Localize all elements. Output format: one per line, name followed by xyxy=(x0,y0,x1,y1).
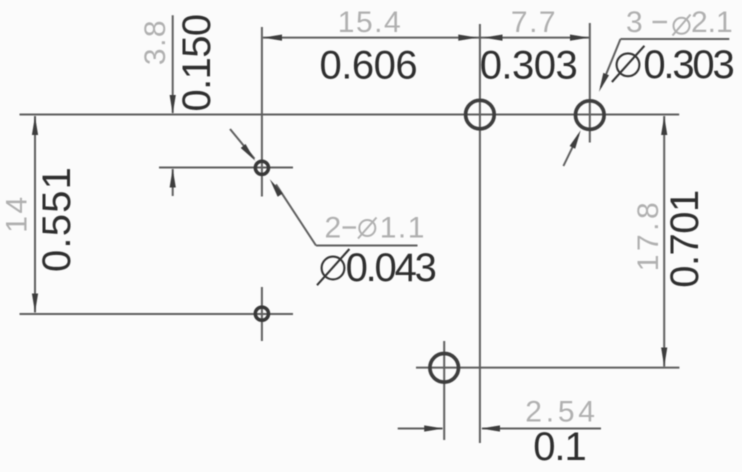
label 3-d2.1 diameter slash xyxy=(673,15,691,36)
wire horizontal centerline through small hole S1 xyxy=(159,167,293,169)
wire top horizontal centerline xyxy=(20,114,680,116)
arrow 0.150 lower (up) xyxy=(170,169,176,188)
svg-text:0.551: 0.551 xyxy=(35,166,79,272)
label d0.303 diameter circle xyxy=(617,53,640,76)
svg-text:0.303: 0.303 xyxy=(643,43,733,87)
hole H1 top left big circle xyxy=(466,100,495,129)
label 2-d1.1 diameter circle xyxy=(359,220,375,236)
svg-text:17.8: 17.8 xyxy=(632,199,665,271)
dimension line bottom 2.54 left segment xyxy=(398,428,443,430)
leader 2-d1.1 upper diagonal xyxy=(230,129,255,159)
hole H2 top right big circle xyxy=(576,101,605,130)
arrow leader 3-d2.1 lower tip xyxy=(570,129,584,149)
arrow 17.8 top (up) xyxy=(661,116,667,135)
arrow left-dim bottom (down) xyxy=(32,294,38,313)
dimension line 3.8/0.150 lower segment xyxy=(172,169,174,196)
arrow 7.7 right xyxy=(570,35,589,41)
svg-text:0.701: 0.701 xyxy=(663,190,707,288)
small hole S2 xyxy=(255,307,268,320)
svg-text:0.606: 0.606 xyxy=(319,44,417,88)
wire bottom horizontal centerline xyxy=(416,367,679,369)
arrow 17.8 bottom (down) xyxy=(661,348,667,367)
dimension line 3.8/0.150 upper segment xyxy=(172,15,174,113)
label d0.303 diameter slash xyxy=(612,46,645,82)
arrow leader 2-d1.1 lower tip xyxy=(267,177,283,196)
arrow 0.150 upper (down) xyxy=(170,95,176,114)
leader 3-d2.1 lower diagonal xyxy=(563,135,578,166)
label d0.043 diameter circle xyxy=(322,257,345,280)
wire vertical centerline through hole H1 xyxy=(479,24,481,443)
svg-text:2: 2 xyxy=(325,212,343,245)
arrow left-dim top (up) xyxy=(32,116,38,135)
label 2-d1.1 dash xyxy=(343,226,357,228)
svg-text:15.4: 15.4 xyxy=(338,6,402,39)
wire vertical centerline through small hole S1 xyxy=(261,27,263,197)
arrow 2.54 right (left-pointing) xyxy=(481,425,500,431)
arrow 7.7 left xyxy=(484,35,503,41)
arrow 15.4 right xyxy=(458,35,477,41)
label 3-d2.1 diameter circle xyxy=(674,18,690,34)
leader 2-d1.1 lower diagonal xyxy=(276,184,316,245)
label d0.043 diameter slash xyxy=(317,249,349,285)
svg-text:1.1: 1.1 xyxy=(380,212,426,245)
svg-text:2.54: 2.54 xyxy=(525,396,599,429)
dimension line left 14/0.551 xyxy=(34,116,36,313)
leader 2-d1.1 shoulder underline xyxy=(316,245,418,247)
arrow 2.54 left (right-pointing) xyxy=(424,425,443,431)
arrow leader 3-d2.1 upper tip xyxy=(596,73,609,93)
small hole S1 xyxy=(255,161,268,174)
wire vertical centerline through hole H3 xyxy=(443,341,445,440)
svg-text:0.1: 0.1 xyxy=(533,425,586,469)
svg-text:0.043: 0.043 xyxy=(346,246,436,290)
label 3-d2.1 dash xyxy=(653,21,668,23)
leader 3-d2.1 shoulder underline xyxy=(621,38,730,40)
label 2-d1.1 diameter slash xyxy=(358,218,377,239)
arrow leader 2-d1.1 upper tip xyxy=(241,144,258,163)
svg-text:3: 3 xyxy=(626,6,644,39)
arrow 15.4 left xyxy=(263,35,282,41)
leader 3-d2.1 upper diagonal xyxy=(601,39,621,87)
svg-text:0.150: 0.150 xyxy=(175,14,219,111)
wire vertical centerline through small hole S2 xyxy=(261,287,263,341)
wire vertical centerline through hole H2 xyxy=(589,23,591,143)
hole H3 bottom big circle xyxy=(430,354,459,383)
svg-text:7.7: 7.7 xyxy=(511,6,557,39)
dimension line top 15.4 and 7.7 xyxy=(263,37,589,39)
svg-text:3.8: 3.8 xyxy=(139,19,172,65)
dimension line right 17.8/0.701 xyxy=(663,116,665,367)
svg-text:0.303: 0.303 xyxy=(480,44,578,88)
wire middle horizontal centerline xyxy=(20,313,294,315)
svg-text:2.1: 2.1 xyxy=(691,6,733,39)
dimension line bottom 2.54 right segment xyxy=(482,428,601,430)
svg-text:14: 14 xyxy=(1,194,34,232)
